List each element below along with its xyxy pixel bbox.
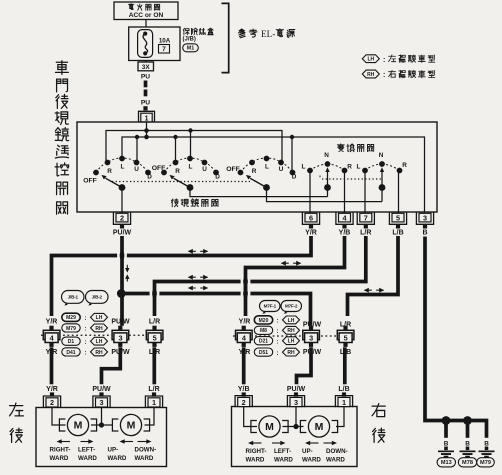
badge D51 : RH <box>254 348 299 357</box>
svg-text:D41: D41 <box>66 350 75 356</box>
svg-text:M13: M13 <box>441 460 452 466</box>
svg-text:PU: PU <box>141 74 150 81</box>
svg-text:Y/R: Y/R <box>46 318 58 325</box>
connector link line (left row) <box>41 334 148 336</box>
svg-text::: : <box>85 316 87 322</box>
right mirror internal wiring <box>244 407 344 427</box>
svg-text:L/R: L/R <box>148 386 159 393</box>
label: fuse rating 10A, pin 7 <box>159 37 171 53</box>
reference bracket: see EL-power <box>222 3 295 72</box>
connector 2 (PU/W) <box>113 213 132 237</box>
connector 3 (B) <box>416 213 433 237</box>
junction node on ground bus <box>442 416 472 425</box>
connector 3X <box>138 61 154 71</box>
flow arrows on PU/W <box>125 265 129 282</box>
svg-text:5: 5 <box>153 334 157 343</box>
ground drop 2 (M78) <box>458 421 476 467</box>
svg-text::: : <box>277 351 279 357</box>
svg-text:10A: 10A <box>159 37 171 44</box>
svg-text:R: R <box>347 164 352 171</box>
svg-text:OFF: OFF <box>83 178 97 185</box>
label L/R above connector 5 right <box>340 322 351 329</box>
harness tag J/B-1 <box>62 291 85 306</box>
label L/R below connector 5 <box>149 349 160 356</box>
harness tag M7F-1 <box>260 301 281 314</box>
changeover switch group A <box>302 152 353 197</box>
svg-text:LEFT-: LEFT- <box>78 447 95 454</box>
svg-text:RIGHT-: RIGHT- <box>50 447 71 454</box>
wire L/B to right mirror <box>343 347 347 384</box>
mechanical link (changeover switch) <box>320 176 382 180</box>
switch group G2 <box>152 156 220 191</box>
legend LH: left-hand drive model <box>362 55 435 64</box>
svg-text:L/B: L/B <box>392 230 403 237</box>
label PU/W below connector 3 <box>111 349 130 356</box>
wire: B2 drop to G2-R <box>173 135 177 163</box>
svg-text:3: 3 <box>99 398 103 407</box>
bus wire B1 (power) <box>106 131 282 163</box>
right door mirror box <box>232 407 358 467</box>
label Y/R above connector 4 <box>46 318 58 325</box>
label PU/W below connector 3 right <box>303 349 322 356</box>
connector 4 (Y/B) <box>336 213 353 237</box>
svg-text:R: R <box>107 168 112 175</box>
label: left rear (Chinese) <box>10 403 24 442</box>
wire: G1 wiper to connector 2 <box>121 188 123 214</box>
badge M79 : RH <box>62 324 108 333</box>
badge M20 : LH <box>254 316 299 325</box>
svg-text::: : <box>277 339 279 345</box>
connector 1 (left mirror, L/R) <box>145 386 162 407</box>
svg-text:D1: D1 <box>68 339 75 345</box>
svg-text:WARD: WARD <box>326 456 345 463</box>
wire Y/B to right mirror <box>242 347 246 384</box>
svg-text:RH: RH <box>287 350 295 356</box>
label: fuse block (J/B) <box>183 28 214 43</box>
svg-text:R: R <box>252 168 257 175</box>
svg-text:WARD: WARD <box>302 456 321 463</box>
connector 7 (L/R) <box>357 213 374 237</box>
harness tag J/B-2 <box>86 291 109 306</box>
crossover marker on Y/B <box>281 261 301 266</box>
wire: B1 drop to G2-L <box>188 128 192 158</box>
wire PU/W branch to right <box>121 294 310 326</box>
svg-text::: : <box>277 329 279 335</box>
connector 3 (right mirror, PU/W) <box>287 386 306 407</box>
svg-text:M79: M79 <box>480 460 491 466</box>
svg-text:J/B-1: J/B-1 <box>68 295 79 300</box>
crossover marker on Y/R <box>188 249 208 254</box>
svg-text:U: U <box>202 166 207 173</box>
label: mirror switch (Chinese) <box>171 199 218 207</box>
svg-text:7: 7 <box>162 46 166 53</box>
svg-text::: : <box>85 351 87 357</box>
wire: contact A-R to connector 4 <box>344 171 346 214</box>
wire: B2 drop to G1-U <box>135 135 139 163</box>
svg-text:Y/B: Y/B <box>339 230 351 237</box>
wire: connector 1 feed to buses <box>144 122 149 139</box>
svg-text:M: M <box>127 420 136 432</box>
svg-text:5: 5 <box>344 334 348 343</box>
mirror remote control switch box U1 <box>77 122 437 212</box>
svg-text:PU/W: PU/W <box>287 386 306 393</box>
svg-text:D: D <box>215 173 220 180</box>
svg-text:Y/R: Y/R <box>305 230 317 237</box>
svg-text:RH: RH <box>367 72 375 78</box>
connector 5 (right pass-through) <box>337 326 354 347</box>
svg-text::: : <box>383 72 385 79</box>
svg-text:RH: RH <box>95 326 103 332</box>
wire: G3 wiper to changeover wiper B <box>267 188 383 202</box>
mechanical link (mirror switch) <box>112 181 250 183</box>
svg-text:WARD: WARD <box>274 456 293 463</box>
svg-text:M: M <box>315 421 324 433</box>
wire L/R to left mirror <box>152 347 156 384</box>
junction: right mirror common <box>293 424 298 429</box>
wire: B2 drop to G3-D <box>290 135 294 173</box>
label PU/W above connector 3 right <box>303 322 322 329</box>
svg-text::: : <box>383 57 385 64</box>
motor M (right mirror vertical) <box>300 416 337 437</box>
ground drop 1 (M13) <box>437 421 455 467</box>
svg-text:ACC or ON: ACC or ON <box>129 12 164 19</box>
harness tag M7F-2 <box>281 301 302 314</box>
wire PU/W to right mirror (jog) <box>297 347 312 384</box>
svg-text:3X: 3X <box>142 64 151 71</box>
junction: left mirror common <box>99 422 104 427</box>
svg-text:LH: LH <box>96 315 103 321</box>
wire Y/B (right mirror horizontal) <box>246 236 345 316</box>
svg-text:3: 3 <box>118 334 122 343</box>
svg-text:3: 3 <box>294 398 298 407</box>
label: right rear (Chinese) <box>372 404 385 443</box>
connector 5 (L/B) <box>389 213 406 237</box>
svg-text:M7F-2: M7F-2 <box>285 304 298 309</box>
svg-text:M20: M20 <box>259 318 269 324</box>
svg-text:PU/W: PU/W <box>113 230 132 237</box>
connector 1 (right mirror, L/B) <box>335 386 352 407</box>
wire PU (fuse to switch) <box>141 74 150 111</box>
wire Y/R (left mirror horizontal) <box>52 236 312 316</box>
badge M29 : LH <box>62 313 108 322</box>
svg-text:D51: D51 <box>259 350 268 356</box>
svg-text:L: L <box>357 164 361 171</box>
fuse F1 10A <box>138 30 153 58</box>
svg-text:2: 2 <box>50 398 54 407</box>
svg-text:D: D <box>147 173 152 180</box>
crossover marker on L/R <box>188 275 208 280</box>
crossover marker on L/B <box>364 288 384 293</box>
switch group G1 (left mirror select) <box>83 156 152 191</box>
connector 5 (door pass-through) <box>146 326 163 347</box>
connector link line (right row) <box>233 335 340 337</box>
switch group G3 <box>226 156 296 191</box>
svg-text:WARD: WARD <box>108 455 127 462</box>
connector 2 (right mirror, Y/B) <box>235 386 252 407</box>
svg-text:Y/R: Y/R <box>239 318 251 325</box>
svg-text:DOWN-: DOWN- <box>326 448 348 455</box>
wire repaint at hops <box>122 252 246 297</box>
motor M (left mirror horizontal) <box>59 414 96 435</box>
svg-text:3: 3 <box>423 213 427 222</box>
svg-text:5: 5 <box>396 213 400 222</box>
junction: PU/W branch node <box>117 289 126 298</box>
crossover marker on PU/W branch <box>188 286 208 291</box>
svg-text:UP-: UP- <box>108 447 119 454</box>
svg-text:L: L <box>265 163 269 170</box>
svg-text:LH: LH <box>367 57 374 63</box>
svg-text:D: D <box>292 173 297 180</box>
svg-text:N: N <box>379 152 384 159</box>
svg-text:U: U <box>134 166 139 173</box>
wire L/B (right mirror vertical) <box>348 236 399 316</box>
svg-text:LEFT-: LEFT- <box>274 448 291 455</box>
wire Y/R to left mirror <box>50 347 54 384</box>
svg-text:PU/W: PU/W <box>111 318 130 325</box>
svg-text:1: 1 <box>144 113 148 122</box>
wire B (ground return) <box>425 237 487 428</box>
svg-text:PU: PU <box>141 99 150 106</box>
svg-text:L/R: L/R <box>149 318 160 325</box>
svg-text:M29: M29 <box>66 315 76 321</box>
wire: contact A-L to connector 6 <box>309 171 311 214</box>
svg-text:2: 2 <box>120 213 124 222</box>
svg-text:LH: LH <box>288 339 295 345</box>
svg-text::: : <box>85 327 87 333</box>
svg-text:WARD: WARD <box>246 456 265 463</box>
svg-text:R: R <box>175 168 180 175</box>
svg-text:1: 1 <box>152 398 156 407</box>
wire: contact B-R to connector 5 <box>398 171 400 214</box>
svg-text:1: 1 <box>342 398 346 407</box>
svg-text:WARD: WARD <box>78 455 97 462</box>
connector 3 (left mirror, PU/W) <box>92 386 111 407</box>
label Y/R above connector 4 right <box>239 318 251 325</box>
wire: contact B-L to connector 7 <box>364 171 366 214</box>
svg-text:RH: RH <box>287 328 295 334</box>
labels: leftward/rightward/upward/downward <box>50 447 157 462</box>
ground drop 3 (M79) <box>477 428 495 467</box>
wire: ACC feed <box>145 20 147 28</box>
connector 3 (door pass-through) <box>112 326 129 347</box>
left mirror internal wiring <box>52 408 154 426</box>
wire: G2 wiper to changeover wiper A <box>190 188 328 197</box>
bus wire B2 (ground) <box>122 137 425 212</box>
connector M1 <box>183 44 199 52</box>
svg-text:N: N <box>324 152 329 159</box>
svg-text::: : <box>277 319 279 325</box>
svg-text:7: 7 <box>364 213 368 222</box>
svg-text:WARD: WARD <box>50 455 69 462</box>
svg-text:Y/B: Y/B <box>238 386 250 393</box>
svg-text:R: R <box>402 162 407 169</box>
wire L/R (left mirror vertical) <box>155 236 366 316</box>
label: changeover switch (Chinese) <box>337 144 373 152</box>
svg-text:M79: M79 <box>66 326 76 332</box>
svg-text:WARD: WARD <box>135 455 154 462</box>
wire PU/W to left mirror (jog) <box>102 347 121 384</box>
svg-text:M: M <box>74 420 83 432</box>
connector 4 (right pass-through) <box>236 326 253 347</box>
left door mirror box <box>36 408 167 467</box>
direction arrows left mirror <box>57 439 152 444</box>
svg-text:6: 6 <box>309 213 313 222</box>
label L/B below connector 5 right <box>340 349 351 356</box>
svg-text:U: U <box>279 166 284 173</box>
connector 2 (left mirror, Y/R) <box>43 386 60 407</box>
svg-text:EL-: EL- <box>261 29 275 39</box>
connector 4 (door pass-through) <box>43 326 60 347</box>
label PU/W above connector 3 <box>111 318 130 325</box>
svg-text:D21: D21 <box>259 339 268 345</box>
svg-text:M7F-1: M7F-1 <box>264 304 277 309</box>
svg-text:PU/W: PU/W <box>92 386 111 393</box>
svg-text:L: L <box>189 163 193 170</box>
svg-text:3: 3 <box>309 334 313 343</box>
label Y/R below connector 4 <box>46 349 58 356</box>
badge M8 : RH <box>254 326 299 335</box>
changeover switch group B <box>357 152 408 202</box>
svg-text:2: 2 <box>242 398 246 407</box>
title: door mirror remote control switch (vertical) <box>55 61 69 215</box>
svg-text:UP-: UP- <box>302 448 313 455</box>
svg-text:L/R: L/R <box>360 230 371 237</box>
svg-text:LH: LH <box>288 318 295 324</box>
badge D1 : LH <box>62 337 108 346</box>
motor M (right mirror horizontal) <box>251 416 288 437</box>
crossing gaps (no-connection hops) <box>117 253 250 296</box>
labels: right mirror directions <box>246 448 348 463</box>
badge D21 : LH <box>254 337 299 346</box>
svg-text:J/B-2: J/B-2 <box>92 295 103 300</box>
svg-text:RH: RH <box>95 350 103 356</box>
svg-text:LH: LH <box>96 339 103 345</box>
ignition switch SW1 <box>114 2 178 20</box>
svg-text:OFF: OFF <box>226 166 240 173</box>
svg-text:DOWN-: DOWN- <box>135 447 157 454</box>
svg-text::: : <box>85 340 87 346</box>
svg-text:L/B: L/B <box>338 386 349 393</box>
svg-text:(J/B): (J/B) <box>183 37 196 43</box>
svg-text:L: L <box>121 163 125 170</box>
svg-text:OFF: OFF <box>152 165 166 172</box>
svg-text:L: L <box>302 164 306 171</box>
connector 1 (switch feed) <box>139 111 155 122</box>
svg-text:RIGHT-: RIGHT- <box>246 448 267 455</box>
fuse box J/B <box>129 27 180 61</box>
label Y/R below connector 4 right <box>239 349 251 356</box>
connector 6 (Y/R) <box>302 213 319 237</box>
wire PU/W (common feed) <box>120 236 124 326</box>
svg-text:M1: M1 <box>187 46 195 52</box>
connector 3 (right pass-through) <box>303 326 320 347</box>
svg-text:Y/R: Y/R <box>46 386 58 393</box>
svg-text:B: B <box>422 230 427 237</box>
svg-text:M8: M8 <box>260 328 267 334</box>
motor M (left mirror vertical) <box>112 414 149 435</box>
direction arrows right mirror <box>248 441 337 446</box>
legend RH: right-hand drive model <box>362 70 435 79</box>
badge D41 : RH <box>62 348 108 357</box>
label L/R above connector 5 <box>149 318 160 325</box>
svg-text:M78: M78 <box>462 460 473 466</box>
svg-text:M: M <box>265 421 274 433</box>
